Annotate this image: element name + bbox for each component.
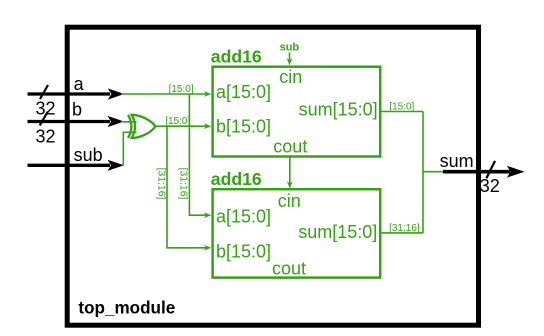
arrowhead a into add16_2 — [204, 212, 211, 218]
module box add16 U2 — [213, 189, 381, 277]
arrowhead xor into add16_1 b — [204, 123, 211, 129]
wire sum trunk — [422, 112, 424, 233]
module box add16 U1 — [213, 67, 381, 157]
svg-text:[15:0]: [15:0] — [165, 116, 190, 127]
wire xor branch down to add16_2 b — [167, 126, 206, 248]
module box top_module — [67, 27, 478, 325]
bus slash a — [40, 85, 48, 99]
svg-text:cin: cin — [278, 191, 301, 211]
svg-text:sub: sub — [74, 145, 103, 165]
wire sum U2 stub — [381, 232, 423, 234]
arrowhead into cin U2 — [287, 181, 293, 188]
svg-text:sum: sum — [440, 151, 474, 171]
svg-text:a[15:0]: a[15:0] — [216, 82, 271, 102]
wire sum U1 stub — [381, 111, 423, 113]
svg-text:cin: cin — [279, 67, 302, 87]
arrowhead output sum — [507, 166, 525, 178]
svg-text:sub: sub — [280, 42, 300, 54]
svg-text:add16: add16 — [211, 169, 262, 189]
svg-text:cout: cout — [272, 259, 306, 279]
arrowhead xor into add16_2 b — [204, 245, 211, 251]
svg-text:[15:0]: [15:0] — [389, 102, 414, 113]
bus slash sum — [486, 161, 495, 178]
svg-text:b[15:0]: b[15:0] — [216, 242, 271, 262]
svg-text:32: 32 — [480, 176, 500, 196]
svg-text:[31:16]: [31:16] — [178, 168, 189, 200]
svg-text:sum[15:0]: sum[15:0] — [299, 99, 378, 119]
arrowhead sub into cin U1 — [287, 58, 293, 65]
wire input a — [28, 92, 111, 95]
arrowhead input b — [108, 116, 125, 127]
wire b into xor — [121, 121, 137, 123]
svg-text:[15:0]: [15:0] — [169, 84, 194, 95]
svg-text:[31:16]: [31:16] — [389, 223, 420, 234]
arrowhead a into add16_1 — [204, 91, 211, 97]
wire a branch down to add16_2 — [189, 94, 206, 215]
wire input b — [28, 120, 111, 123]
arrowhead input sub — [108, 160, 125, 171]
xor gate — [128, 115, 156, 138]
svg-text:b[15:0]: b[15:0] — [216, 117, 271, 137]
svg-text:[31:16]: [31:16] — [155, 168, 166, 200]
svg-text:a: a — [74, 74, 85, 94]
wire xor out to add16_1 b — [156, 125, 206, 127]
arrowhead input a — [108, 88, 125, 99]
bus slash b — [40, 112, 48, 126]
wire cout U1 to cin U2 — [289, 157, 291, 184]
svg-text:cout: cout — [273, 137, 307, 157]
wire sum junction to output — [423, 171, 447, 173]
wire output sum — [443, 170, 510, 174]
svg-text:sum[15:0]: sum[15:0] — [298, 222, 377, 242]
svg-text:add16: add16 — [211, 46, 262, 66]
svg-text:top_module: top_module — [78, 299, 175, 318]
wire sub stub to cin U1 — [289, 53, 291, 61]
wire input sub — [28, 164, 111, 167]
svg-text:b: b — [72, 99, 82, 119]
svg-text:a[15:0]: a[15:0] — [216, 207, 271, 227]
wire sub up to xor — [123, 132, 136, 165]
wire a to add16_1 — [121, 93, 206, 95]
svg-text:32: 32 — [36, 127, 56, 147]
